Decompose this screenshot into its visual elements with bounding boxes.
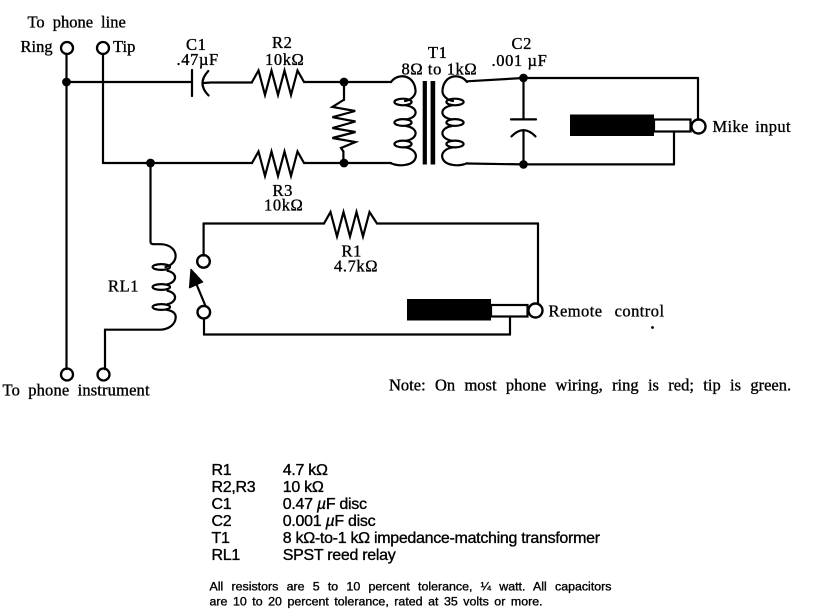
switch armature: [197, 286, 205, 306]
capacitor C2 top lead: [522, 78, 524, 119]
wire: mike sleeve riser: [673, 132, 675, 164]
resistor (shunt, unlabeled) vertical: [343, 82, 345, 100]
svg-text:8Ω to 1kΩ: 8Ω to 1kΩ: [402, 60, 478, 79]
wire: transformer secondary top to mike tip: [467, 78, 698, 81]
wire: relay coil to phone-instrument terminal: [104, 330, 106, 370]
svg-text:R1: R1: [212, 462, 232, 479]
transformer T1 secondary winding: [442, 76, 467, 101]
node: junction lower rail / shunt resistor: [340, 159, 349, 168]
svg-text:0.001 µF disc: 0.001 µF disc: [283, 513, 376, 530]
wire: top rail from Ring junction to C1: [67, 81, 192, 83]
svg-text:To phone line: To phone line: [28, 12, 126, 31]
svg-text:C2: C2: [212, 513, 232, 530]
wire: C1 to R2: [204, 81, 253, 84]
svg-text:R2,R3: R2,R3: [212, 479, 256, 496]
svg-text:To phone instrument: To phone instrument: [3, 380, 150, 399]
svg-text:All resistors are 5 to 10 perc: All resistors are 5 to 10 percent tolera…: [210, 580, 612, 594]
wire: R1 to remote tip: [377, 222, 538, 224]
wire: R3 to transformer (lower): [304, 162, 391, 164]
node: junction lower rail / C2: [519, 160, 528, 169]
mike plug shaft: [654, 120, 691, 132]
wire: lower rail transformer to mike sleeve: [467, 162, 674, 165]
svg-text:10 kΩ: 10 kΩ: [283, 479, 324, 496]
terminal Tip: [97, 42, 109, 54]
svg-text:Tip: Tip: [113, 37, 135, 56]
svg-text:C1: C1: [212, 496, 232, 513]
remote plug shaft: [491, 305, 528, 317]
transformer T1 primary winding: [391, 76, 416, 101]
svg-text:are 10 to 20 percent tolerance: are 10 to 20 percent tolerance, rated at…: [210, 595, 543, 609]
svg-text:0.47 µF disc: 0.47 µF disc: [283, 496, 367, 513]
wire: R2 to transformer: [304, 81, 391, 83]
node: junction top rail / shunt resistor: [340, 78, 349, 87]
svg-text:10kΩ: 10kΩ: [265, 50, 304, 69]
wire: switch bottom rail: [204, 333, 510, 335]
svg-text:Ring: Ring: [21, 37, 53, 56]
wire: right vertical to remote tip: [537, 224, 539, 304]
node: junction top rail / C2: [519, 74, 528, 83]
remote plug tip: [529, 304, 543, 318]
svg-text:T1: T1: [212, 530, 230, 547]
svg-text:Mike input: Mike input: [713, 117, 791, 136]
relay RL1 coil: [153, 264, 170, 270]
svg-text:.47µF: .47µF: [177, 50, 219, 69]
remote plug body: [407, 299, 491, 321]
wire: right vertical to mike tip: [697, 78, 699, 120]
capacitor C1 plates: [191, 70, 193, 96]
relay RL1 branch wire down: [151, 163, 176, 267]
wire: Ring vertical down left side: [65, 54, 67, 369]
svg-text:.001 µF: .001 µF: [492, 51, 548, 70]
svg-text:RL1: RL1: [108, 277, 139, 296]
speck: [651, 326, 654, 329]
svg-text:4.7 kΩ: 4.7 kΩ: [283, 462, 328, 479]
wire: lower contact drop: [203, 319, 205, 334]
svg-text:8 kΩ-to-1 kΩ impedance-matchin: 8 kΩ-to-1 kΩ impedance-matching transfor…: [283, 530, 601, 547]
resistor R1: [324, 212, 377, 237]
wire: Tip vertical to lower rail: [102, 54, 104, 163]
terminal: phone instrument left: [61, 369, 73, 381]
wire: upper contact riser: [203, 224, 205, 256]
resistor R3: [252, 152, 304, 177]
wire: remote sleeve riser: [509, 317, 511, 335]
node: junction lower rail / relay branch: [146, 159, 155, 168]
svg-text:RL1: RL1: [212, 547, 241, 564]
switch upper contact: [197, 255, 210, 268]
capacitor C2 plates: [511, 118, 536, 120]
capacitor C2 bottom lead: [522, 130, 524, 164]
svg-text:Note: On most phone wiring, ri: Note: On most phone wiring, ring is red;…: [389, 376, 791, 395]
wire: lower rail from Tip to R3: [103, 162, 252, 164]
svg-text:Remote control: Remote control: [549, 301, 665, 320]
wire: switch top rail to R1: [204, 222, 324, 224]
transformer T1 core: [423, 81, 427, 165]
node: junction Ring / top rail: [62, 78, 71, 87]
svg-text:SPST reed relay: SPST reed relay: [283, 547, 396, 564]
terminal: phone instrument right: [98, 369, 110, 381]
svg-text:10kΩ: 10kΩ: [264, 196, 303, 215]
mike plug body: [570, 115, 654, 137]
resistor R2: [252, 71, 304, 96]
switch lower contact: [198, 306, 211, 319]
mike plug tip: [692, 120, 706, 134]
terminal Ring: [61, 42, 73, 54]
svg-text:4.7kΩ: 4.7kΩ: [334, 257, 378, 276]
